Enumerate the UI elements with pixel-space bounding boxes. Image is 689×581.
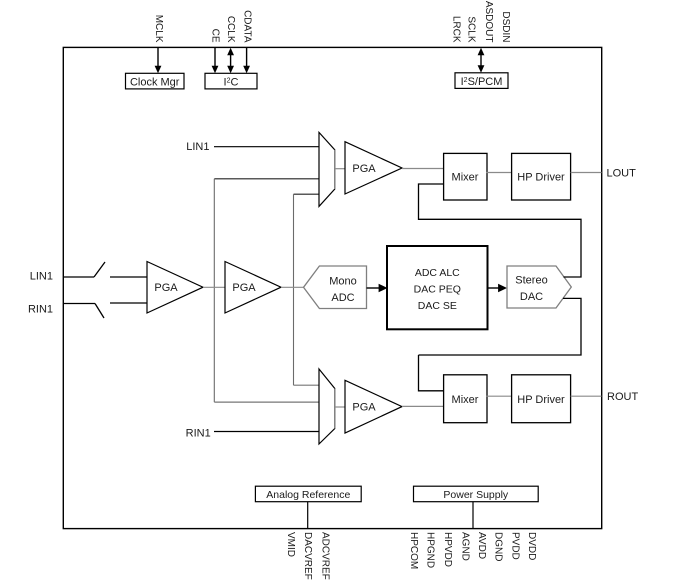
block HP Driver (right channel) — [512, 375, 571, 423]
wire RIN1 to bottom mux — [214, 431, 319, 433]
wire top mux input 2 from PGA1 output tap — [214, 178, 319, 180]
svg-text:PGA: PGA — [352, 163, 376, 175]
wire right Mixer to HP Driver — [487, 395, 512, 397]
svg-text:HPVDD: HPVDD — [442, 532, 453, 567]
svg-text:I2C: I2C — [224, 76, 239, 88]
pin label DACVREF — [302, 532, 313, 580]
svg-text:HPCOM: HPCOM — [408, 532, 419, 569]
wire PGA to left Mixer — [402, 168, 443, 170]
wire LIN1 input segment — [63, 276, 94, 278]
svg-text:AGND: AGND — [459, 532, 470, 561]
block I2C — [205, 73, 257, 89]
block Mixer (left channel) — [444, 153, 487, 200]
pin label HPCOM — [408, 532, 419, 569]
svg-text:PGA: PGA — [352, 402, 376, 414]
wire LIN1 to top mux — [214, 146, 319, 148]
svg-text:HP Driver: HP Driver — [517, 172, 565, 184]
svg-text:Stereo: Stereo — [515, 275, 547, 287]
block Clock Mgr — [126, 73, 185, 89]
wire LIN1 to PGA1 — [110, 276, 147, 278]
svg-text:DAC PEQ: DAC PEQ — [414, 283, 461, 295]
pin label LRCK — [450, 16, 461, 43]
svg-text:Power Supply: Power Supply — [443, 489, 509, 501]
pin label CCLK — [225, 16, 236, 43]
wire arrow Mono ADC to ADC ALC — [367, 284, 388, 293]
block Mono ADC — [304, 266, 367, 309]
pin label HPVDD — [442, 532, 453, 567]
svg-text:Clock Mgr: Clock Mgr — [130, 76, 180, 88]
svg-text:RIN1: RIN1 — [186, 428, 211, 440]
wire CE arrow into I2C — [212, 48, 219, 74]
svg-text:RIN1: RIN1 — [28, 304, 53, 316]
svg-text:ROUT: ROUT — [607, 391, 638, 403]
wire bottom mux to PGA — [335, 406, 345, 408]
wire bottom mux input 2 from PGA1 output tap — [214, 401, 319, 403]
port label LIN1 (left input) — [30, 271, 53, 283]
wire bottom mux input 1 from PGA2 output tap — [294, 384, 320, 386]
wire MCLK arrow into Clock Mgr — [155, 48, 162, 74]
wire Stereo DAC lower output feedback to right Mixer — [419, 298, 582, 390]
svg-text:PGA: PGA — [154, 282, 178, 294]
op-amp PGA (top, left output) — [345, 142, 402, 194]
svg-text:Mixer: Mixer — [452, 394, 479, 406]
switch RIN1 (open) — [95, 304, 104, 319]
wire vertical tap from PGA2 output (x=293.5) — [293, 194, 295, 385]
pin label ADCVREF — [319, 532, 330, 580]
svg-text:DAC: DAC — [520, 291, 543, 303]
wire arrow ADC ALC to Stereo DAC — [488, 284, 508, 293]
pin label SCLK — [465, 16, 476, 42]
pin label CDATA — [241, 10, 252, 43]
svg-text:ASDOUT: ASDOUT — [483, 1, 494, 43]
svg-text:SCLK: SCLK — [465, 16, 476, 42]
svg-text:Mono: Mono — [329, 276, 357, 288]
wire CCLK bidirectional arrow into I2C — [227, 48, 234, 74]
port label ROUT — [607, 391, 638, 403]
op-amp PGA2 (input stage 2) — [225, 262, 281, 314]
wire HP Driver to LOUT pin — [571, 172, 602, 174]
svg-text:LRCK: LRCK — [450, 16, 461, 43]
svg-text:CE: CE — [209, 29, 220, 43]
pin label PVDD — [509, 532, 520, 560]
svg-text:ADCVREF: ADCVREF — [319, 532, 330, 580]
svg-text:LOUT: LOUT — [607, 168, 637, 180]
svg-text:ADC ALC: ADC ALC — [415, 267, 460, 279]
svg-text:PGA: PGA — [232, 282, 256, 294]
op-amp PGA (bottom, right output) — [345, 380, 402, 433]
svg-text:DVDD: DVDD — [526, 532, 537, 560]
wire CDATA arrow into I2C — [243, 48, 250, 74]
pin label DSDIN — [500, 11, 511, 42]
pin label VMID — [285, 532, 296, 557]
pin label ASDOUT — [483, 1, 494, 43]
wire PGA1 to PGA2 — [203, 286, 225, 288]
svg-text:DSDIN: DSDIN — [500, 11, 511, 42]
block Mixer (right channel) — [444, 375, 487, 423]
svg-text:DGND: DGND — [493, 532, 504, 561]
wire top mux input 3 from PGA2 output tap — [294, 193, 320, 195]
pin label DVDD — [526, 532, 537, 560]
wire Power Supply to bottom pins — [472, 502, 474, 528]
svg-text:CCLK: CCLK — [225, 16, 236, 43]
svg-text:Mixer: Mixer — [452, 172, 479, 184]
svg-text:Analog Reference: Analog Reference — [266, 489, 350, 501]
svg-text:HPGND: HPGND — [425, 532, 436, 568]
wire I2S/PCM bidirectional arrow — [478, 48, 485, 73]
wire Analog Reference to bottom pins — [307, 502, 309, 528]
pin label CE — [209, 29, 220, 43]
svg-text:AVDD: AVDD — [476, 532, 487, 559]
svg-text:MCLK: MCLK — [153, 15, 164, 43]
block Stereo DAC — [507, 266, 571, 308]
svg-text:ADC: ADC — [331, 292, 354, 304]
port label LOUT — [607, 168, 637, 180]
wire left Mixer to HP Driver — [487, 172, 512, 174]
wire RIN1 input segment — [63, 303, 95, 305]
wire Stereo DAC upper output feedback to left Mixer — [419, 184, 582, 277]
svg-text:CDATA: CDATA — [241, 10, 252, 43]
svg-text:DAC SE: DAC SE — [418, 300, 457, 312]
svg-text:LIN1: LIN1 — [186, 141, 209, 153]
switch LIN1 (open) — [94, 262, 105, 277]
mux (bottom, right output selector) — [319, 369, 335, 444]
pin label HPGND — [425, 532, 436, 568]
svg-text:VMID: VMID — [285, 532, 296, 557]
port label RIN1 (bottom mux input) — [186, 428, 211, 440]
port label RIN1 (left input) — [28, 304, 53, 316]
outer chip boundary box — [63, 47, 601, 528]
wire top mux to PGA — [335, 168, 345, 170]
block Power Supply — [414, 486, 539, 502]
block HP Driver (left channel) — [512, 153, 571, 200]
block I2S/PCM — [455, 73, 508, 89]
pin label AGND — [459, 532, 470, 561]
block ADC ALC / DAC PEQ / DAC SE — [387, 246, 488, 329]
svg-text:DACVREF: DACVREF — [302, 532, 313, 580]
pin label DGND — [493, 532, 504, 561]
wire PGA2 to Mono ADC — [281, 286, 304, 288]
svg-text:PVDD: PVDD — [509, 532, 520, 560]
mux (top, left output selector) — [319, 132, 335, 206]
pin label MCLK — [153, 15, 164, 43]
op-amp PGA1 (input stage 1) — [147, 262, 203, 314]
wire PGA to right Mixer — [402, 405, 443, 407]
port label LIN1 (top mux input) — [186, 141, 209, 153]
pin label AVDD — [476, 532, 487, 559]
wire HP Driver to ROUT pin — [571, 395, 602, 397]
svg-text:I2S/PCM: I2S/PCM — [461, 76, 503, 88]
svg-text:HP Driver: HP Driver — [517, 394, 565, 406]
svg-text:LIN1: LIN1 — [30, 271, 53, 283]
wire vertical tap from PGA1 output (x=214) — [213, 179, 215, 402]
block Analog Reference — [255, 486, 361, 502]
wire RIN1 to PGA1 — [110, 302, 147, 304]
